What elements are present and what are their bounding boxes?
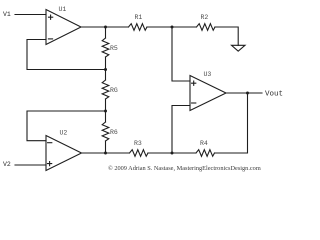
svg-text:Vout: Vout (265, 91, 283, 99)
wire U2 output to R3 (82, 152, 130, 154)
node dot bottom middle (R3/R6 junction) (104, 152, 107, 155)
node dot B (RG/R6 junction) (104, 110, 107, 113)
resistor R5 (102, 27, 118, 70)
svg-text:U2: U2 (60, 130, 68, 137)
resistor R1 (129, 14, 148, 30)
wire node top right to U3 non-inverting input (172, 27, 190, 81)
wire V2 to U2 non-inverting input (15, 164, 46, 166)
svg-text:R5: R5 (110, 45, 118, 52)
op-amp U3 (190, 71, 226, 111)
svg-text:R1: R1 (135, 14, 143, 21)
wire U2 inverting input feedback to node B (27, 111, 106, 141)
wire U3 output to Vout (226, 92, 262, 94)
wire node bottom right to U3 inverting input (172, 106, 190, 154)
svg-text:R3: R3 (134, 140, 142, 147)
wire R4 to Vout node (215, 93, 248, 153)
wire R1 to R2 (147, 26, 197, 28)
svg-text:V2: V2 (3, 161, 11, 168)
svg-text:RG: RG (110, 87, 118, 94)
node dot top middle (R1/R5 junction) (104, 26, 107, 29)
wire U1 inverting input feedback to node A (27, 40, 106, 70)
wire V1 to U1 non-inverting input (15, 14, 46, 16)
svg-text:R6: R6 (110, 129, 118, 136)
svg-text:V1: V1 (3, 11, 11, 18)
wire U1 output to R1 (81, 26, 129, 28)
resistor RG (102, 70, 118, 112)
wire R3 to R4 (148, 152, 196, 154)
op-amp U1 (46, 6, 81, 45)
node dot Vout (output/R4 junction) (246, 92, 249, 95)
svg-text:U1: U1 (59, 6, 67, 13)
node dot top right (R1/R2/U3+ junction) (171, 26, 174, 29)
node dot A (R5/RG junction) (104, 68, 107, 71)
resistor R6 (102, 111, 118, 153)
svg-text:U3: U3 (204, 71, 212, 78)
svg-text:© 2009 Adrian S. Nastase, Mast: © 2009 Adrian S. Nastase, MasteringElect… (108, 165, 261, 172)
ground (232, 45, 246, 51)
resistor R4 (196, 140, 215, 156)
svg-text:R4: R4 (200, 140, 208, 147)
op-amp U2 (46, 130, 82, 171)
node dot bottom right (R3/R4/U3- junction) (171, 152, 174, 155)
resistor R3 (130, 140, 149, 156)
wire R2 to ground (215, 27, 238, 45)
resistor R2 (197, 14, 216, 30)
svg-text:R2: R2 (201, 14, 209, 21)
